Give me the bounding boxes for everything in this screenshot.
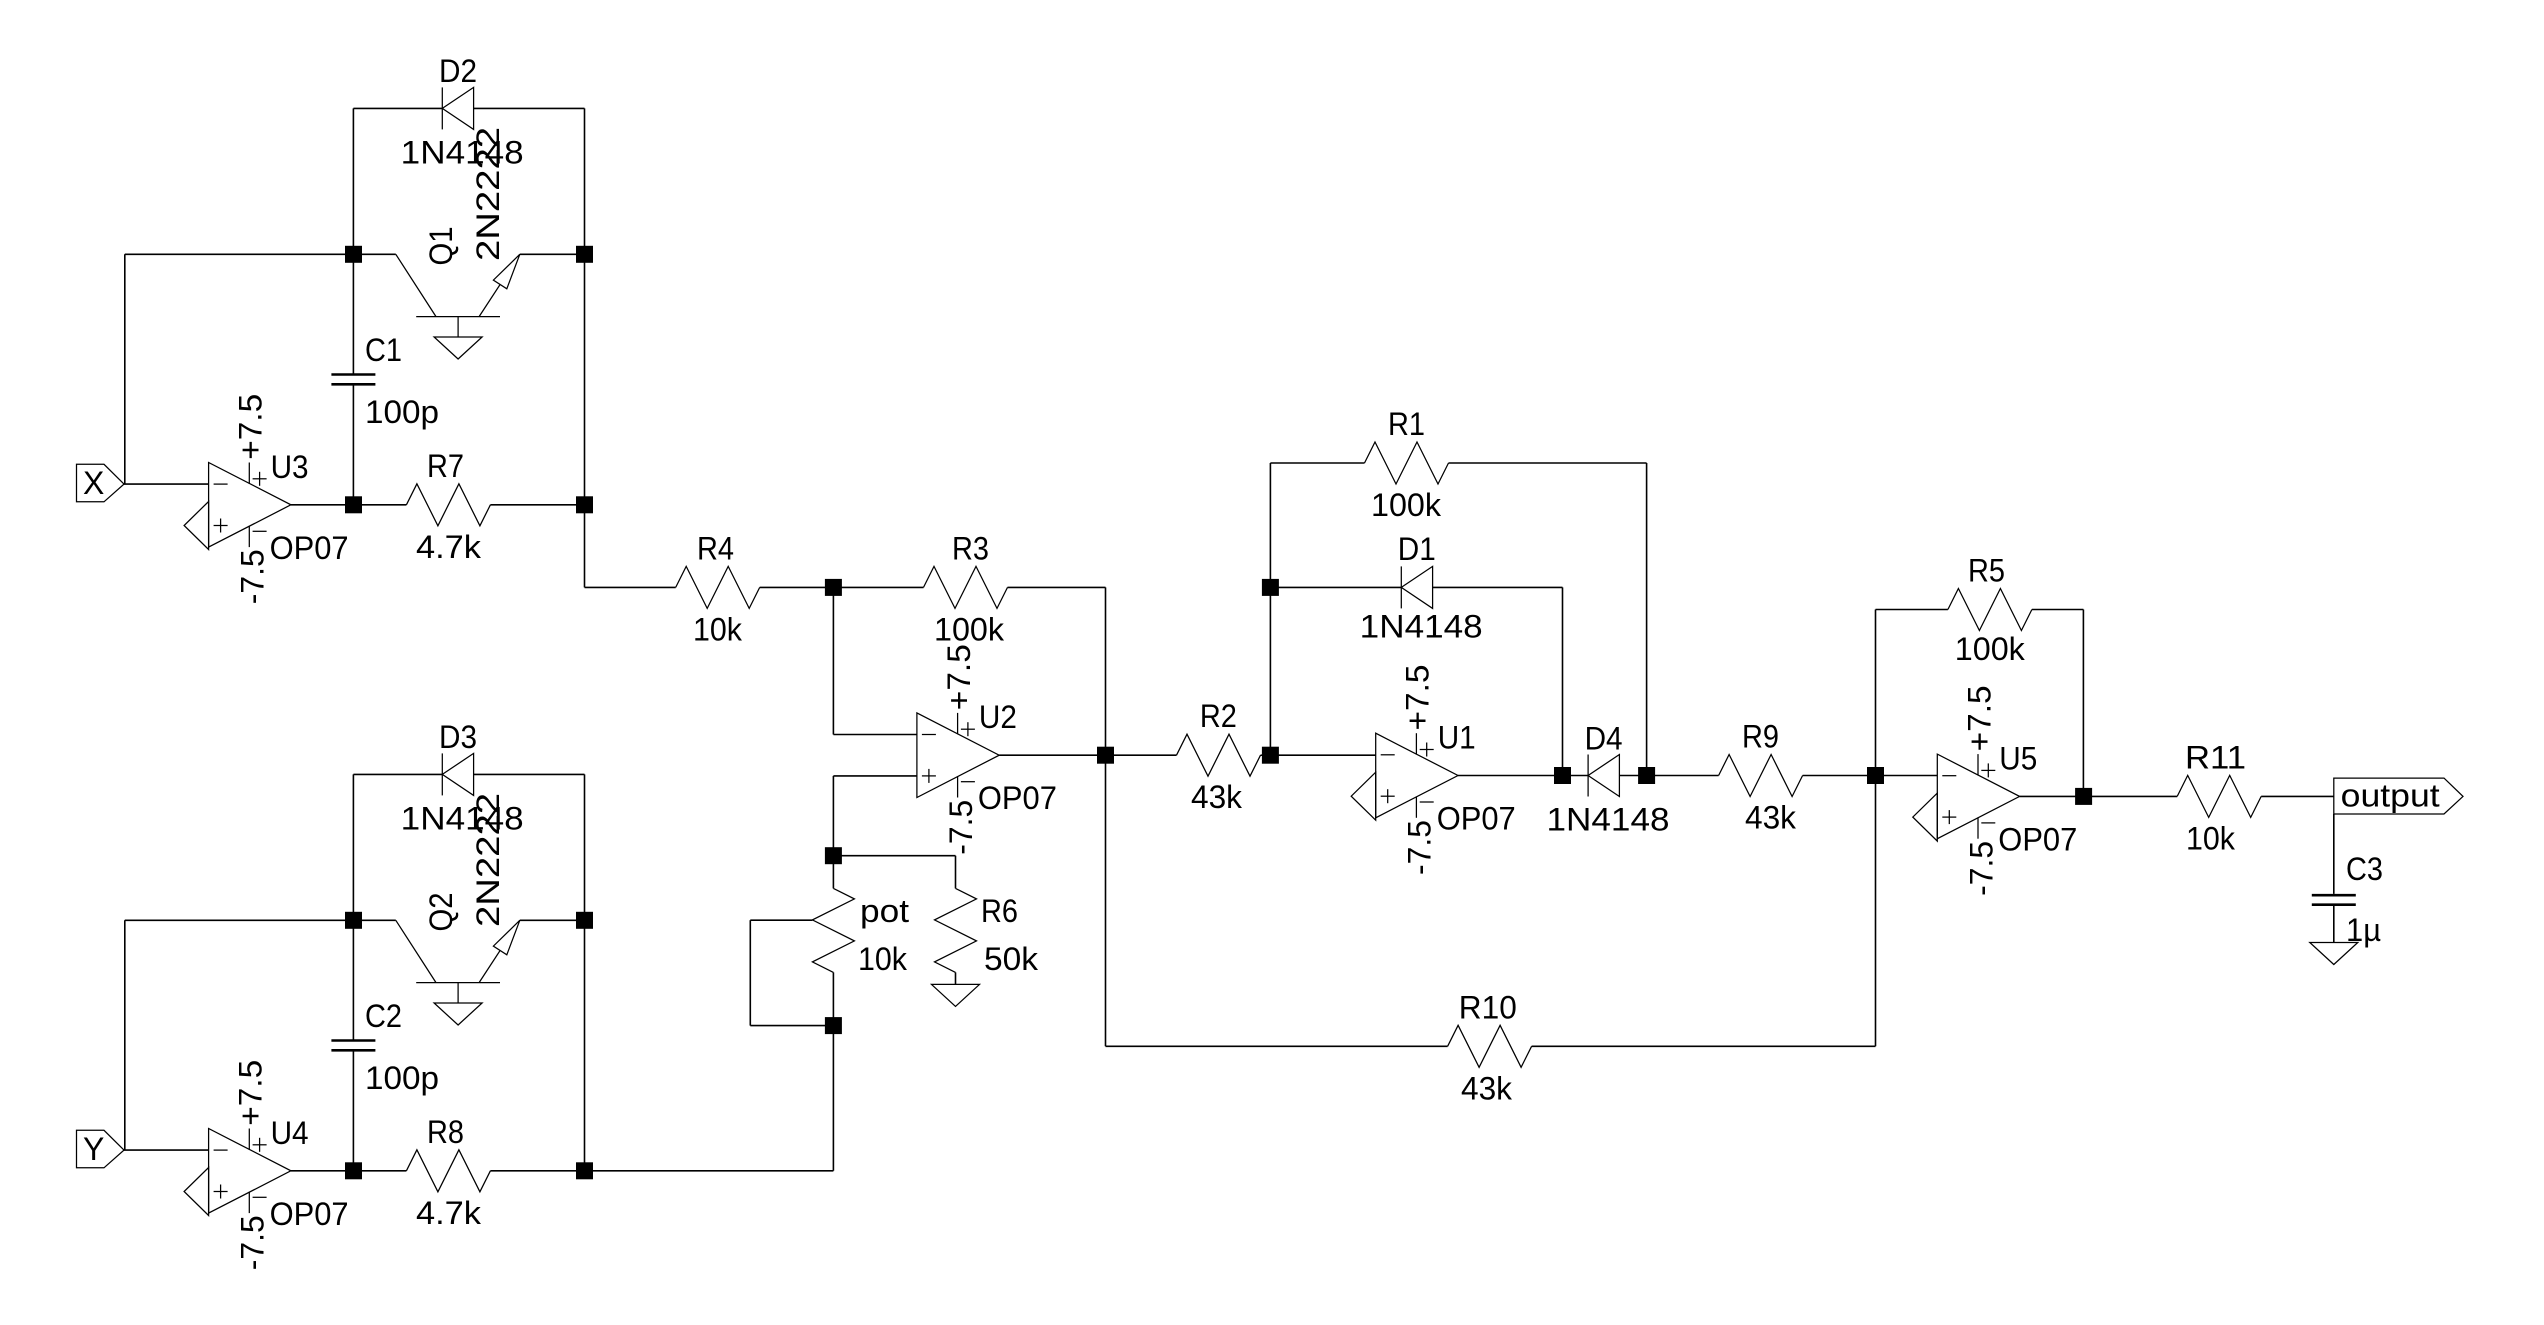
- node: [825, 579, 842, 596]
- wire: [1105, 755, 1107, 1046]
- svg-text:D3: D3: [439, 719, 477, 755]
- wire: [1563, 775, 1589, 777]
- svg-text:1N4148: 1N4148: [1360, 608, 1483, 644]
- wire: [352, 254, 354, 374]
- resistor R5: [1948, 553, 2032, 668]
- wire: [832, 1026, 834, 1171]
- wire: [1875, 776, 1877, 1047]
- svg-text:+7.5: +7.5: [233, 394, 269, 460]
- svg-text:100k: 100k: [1371, 487, 1442, 523]
- wire: [353, 107, 584, 109]
- svg-text:Q2: Q2: [423, 893, 459, 932]
- wire: [1449, 462, 1647, 464]
- svg-text:100k: 100k: [1955, 631, 2026, 667]
- wire: [124, 920, 126, 1150]
- resistor R10: [1448, 989, 1532, 1106]
- node: [1262, 579, 1279, 596]
- svg-text:D1: D1: [1398, 531, 1436, 567]
- ground: [1913, 793, 1938, 841]
- wire: [291, 1170, 354, 1172]
- node: [1554, 767, 1571, 784]
- svg-text:U3: U3: [271, 449, 309, 485]
- wire: [833, 587, 917, 734]
- svg-text:4.7k: 4.7k: [416, 529, 482, 565]
- svg-text:OP07: OP07: [270, 1196, 349, 1232]
- svg-text:C2: C2: [365, 998, 402, 1034]
- potentiometer pot: [750, 888, 909, 1025]
- resistor R9: [1719, 719, 1803, 836]
- svg-text:10k: 10k: [858, 941, 908, 977]
- wire: [1619, 775, 1646, 777]
- wire: [1106, 1045, 1448, 1047]
- svg-text:R1: R1: [1388, 406, 1425, 442]
- wire: [1647, 775, 1719, 777]
- op-amp U2: [917, 644, 1057, 855]
- svg-text:R5: R5: [1968, 553, 2005, 589]
- svg-text:+7.5: +7.5: [233, 1060, 269, 1126]
- svg-text:Y: Y: [83, 1131, 104, 1167]
- op-amp U3: [209, 394, 349, 605]
- wire: [125, 253, 354, 255]
- svg-text:4.7k: 4.7k: [416, 1195, 482, 1231]
- resistor R7: [406, 448, 490, 565]
- op-amp U1: [1376, 665, 1516, 876]
- wire: [2032, 609, 2083, 611]
- svg-text:Q1: Q1: [423, 227, 459, 266]
- wire: [1261, 754, 1271, 756]
- ground: [1351, 772, 1376, 820]
- transistor Q1: [354, 127, 585, 317]
- wire: [1532, 1045, 1876, 1047]
- node: [1097, 747, 1114, 764]
- capacitor C1: [331, 332, 439, 430]
- node: [576, 912, 593, 929]
- ground: [184, 502, 209, 550]
- output flag: [2334, 778, 2463, 815]
- wire: [2333, 906, 2335, 943]
- node: [576, 246, 593, 263]
- svg-text:OP07: OP07: [1437, 801, 1516, 837]
- svg-text:43k: 43k: [1191, 779, 1243, 815]
- wire: [2020, 795, 2084, 797]
- wire: [1433, 586, 1563, 588]
- wire: [1646, 463, 1648, 776]
- resistor R6: [935, 856, 1040, 985]
- wire: [584, 920, 586, 1171]
- svg-text:100p: 100p: [365, 394, 439, 430]
- svg-text:R7: R7: [427, 448, 464, 484]
- node: [825, 847, 842, 864]
- wire: [833, 586, 923, 588]
- node: [345, 246, 362, 263]
- resistor R11: [2177, 739, 2261, 856]
- node: [576, 1162, 593, 1179]
- svg-text:U1: U1: [1438, 720, 1476, 756]
- svg-text:100k: 100k: [934, 611, 1005, 647]
- node: [345, 912, 362, 929]
- svg-text:R9: R9: [1742, 719, 1779, 755]
- svg-text:100p: 100p: [365, 1060, 439, 1096]
- op-amp U5: [1937, 685, 2077, 896]
- wire: [2082, 610, 2084, 797]
- wire: [1875, 610, 1877, 776]
- svg-text:X: X: [83, 465, 104, 501]
- wire: [760, 586, 834, 588]
- wire: [2261, 795, 2334, 797]
- svg-text:R2: R2: [1200, 698, 1237, 734]
- wire: [1105, 587, 1107, 755]
- svg-text:OP07: OP07: [1998, 821, 2077, 857]
- node: [345, 1162, 362, 1179]
- ground: [2310, 943, 2358, 965]
- resistor R3: [924, 530, 1008, 647]
- node: [825, 1017, 842, 1034]
- ground: [184, 1168, 209, 1216]
- capacitor C3: [2312, 851, 2383, 948]
- wire: [585, 505, 676, 588]
- ground: [932, 984, 980, 1006]
- wire: [354, 1170, 407, 1172]
- svg-text:U2: U2: [979, 699, 1017, 735]
- node: [1638, 767, 1655, 784]
- wire: [1803, 775, 1876, 777]
- svg-text:-7.5: -7.5: [1402, 820, 1438, 875]
- diode D3: [401, 719, 524, 837]
- transistor Q2: [354, 793, 585, 983]
- wire: [1270, 754, 1375, 756]
- ground: [434, 983, 482, 1025]
- node: [1867, 767, 1884, 784]
- wire: [123, 1149, 209, 1151]
- svg-text:OP07: OP07: [978, 780, 1057, 816]
- node: [2075, 788, 2092, 805]
- svg-text:U4: U4: [271, 1115, 309, 1151]
- svg-text:2N2222: 2N2222: [470, 127, 506, 261]
- svg-text:D4: D4: [1585, 721, 1623, 757]
- svg-text:C3: C3: [2346, 851, 2383, 887]
- svg-text:R10: R10: [1459, 989, 1517, 1025]
- wire: [352, 774, 354, 920]
- svg-text:output: output: [2341, 778, 2440, 814]
- wire: [1269, 463, 1271, 755]
- wire: [352, 920, 354, 1040]
- svg-text:R8: R8: [427, 1114, 464, 1150]
- node: [576, 496, 593, 513]
- svg-text:10k: 10k: [2186, 820, 2236, 856]
- node: [345, 496, 362, 513]
- wire: [490, 504, 584, 506]
- svg-text:+7.5: +7.5: [1400, 665, 1436, 731]
- input flag X: [77, 464, 125, 502]
- svg-text:+7.5: +7.5: [1961, 685, 1997, 751]
- wire: [123, 483, 209, 485]
- resistor R1: [1365, 406, 1449, 523]
- wire: [352, 108, 354, 254]
- diode D1: [1360, 531, 1483, 645]
- input flag Y: [77, 1130, 125, 1168]
- resistor R4: [676, 530, 760, 647]
- wire: [1458, 775, 1563, 777]
- wire: [1270, 586, 1401, 588]
- wire: [352, 1050, 354, 1171]
- wire: [125, 919, 354, 921]
- wire: [2333, 814, 2335, 894]
- svg-text:10k: 10k: [693, 611, 743, 647]
- wire: [291, 504, 354, 506]
- wire: [2084, 795, 2178, 797]
- wire: [1270, 462, 1364, 464]
- svg-text:43k: 43k: [1745, 800, 1797, 836]
- svg-text:50k: 50k: [984, 941, 1039, 977]
- wire: [1562, 587, 1564, 775]
- wire: [1876, 775, 1938, 777]
- wire: [999, 754, 1105, 756]
- wire: [584, 108, 586, 254]
- wire: [833, 776, 917, 856]
- svg-text:-7.5: -7.5: [1963, 841, 1999, 896]
- svg-text:U5: U5: [1999, 740, 2037, 776]
- node: [1262, 747, 1279, 764]
- svg-text:-7.5: -7.5: [235, 549, 271, 604]
- svg-text:+7.5: +7.5: [941, 644, 977, 710]
- wire: [354, 504, 407, 506]
- svg-text:-7.5: -7.5: [943, 800, 979, 855]
- wire: [1008, 586, 1106, 588]
- wire: [832, 856, 834, 889]
- svg-text:pot: pot: [860, 893, 909, 929]
- wire: [584, 774, 586, 920]
- svg-text:2N2222: 2N2222: [470, 793, 506, 927]
- svg-text:OP07: OP07: [270, 530, 349, 566]
- capacitor C2: [331, 998, 439, 1096]
- wire: [832, 972, 834, 1025]
- op-amp U4: [209, 1060, 349, 1271]
- wire: [584, 254, 586, 504]
- diode D2: [401, 53, 524, 171]
- svg-text:1N4148: 1N4148: [1547, 802, 1670, 838]
- wire: [124, 254, 126, 484]
- wire: [490, 1170, 584, 1172]
- wire: [352, 384, 354, 505]
- svg-text:43k: 43k: [1461, 1070, 1513, 1106]
- svg-text:D2: D2: [439, 53, 477, 89]
- svg-text:-7.5: -7.5: [235, 1215, 271, 1270]
- wire: [353, 773, 584, 775]
- svg-text:R11: R11: [2185, 739, 2246, 775]
- svg-text:R3: R3: [952, 530, 989, 566]
- svg-text:R4: R4: [697, 530, 734, 566]
- diode D4: [1547, 721, 1670, 838]
- wire: [1106, 754, 1177, 756]
- svg-text:R6: R6: [981, 893, 1018, 929]
- svg-text:C1: C1: [365, 332, 402, 368]
- wire: [585, 1170, 834, 1172]
- resistor R2: [1177, 698, 1261, 815]
- wire: [833, 855, 955, 857]
- wire: [1876, 609, 1948, 611]
- ground: [434, 317, 482, 359]
- resistor R8: [406, 1114, 490, 1231]
